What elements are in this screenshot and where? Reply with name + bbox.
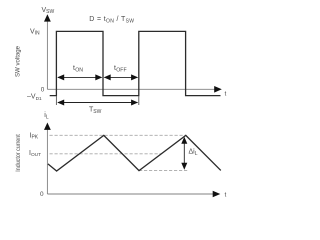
y-axis arrowhead (bottom plot) [44, 123, 51, 130]
inductor current triangle waveform [48, 135, 221, 171]
t_ON arrow [58, 76, 102, 78]
tick below rising edge 1 [55, 96, 57, 105]
valley dashed level line [139, 170, 189, 172]
I_OUT dashed level line [50, 153, 162, 155]
svg-text:TSW: TSW [89, 107, 102, 116]
svg-text:VIN: VIN [30, 28, 40, 36]
I_PK dashed level line [50, 134, 187, 136]
svg-text:IOUT: IOUT [29, 150, 41, 158]
svg-text:ΔiL: ΔiL [189, 149, 198, 158]
x-axis arrowhead (top) [214, 86, 222, 93]
t_OFF arrow [105, 76, 138, 78]
svg-text:tON: tON [73, 65, 83, 73]
y-axis arrowhead [44, 14, 51, 21]
delta i_L arrow [183, 140, 185, 166]
T_SW arrow [58, 102, 138, 104]
y-axis (V_SW axis) [46, 19, 48, 89]
svg-text:SW voltage: SW voltage [15, 45, 22, 77]
top plot: SW voltage [15, 7, 227, 115]
svg-text:–VD1: –VD1 [27, 94, 42, 102]
x-axis (t axis, bottom) [47, 193, 213, 195]
svg-text:VSW: VSW [42, 7, 55, 15]
svg-text:tOFF: tOFF [114, 65, 127, 73]
svg-text:0: 0 [40, 191, 44, 198]
tick below rising edge 2 [138, 96, 140, 105]
svg-text:iL: iL [44, 112, 49, 121]
x-axis arrowhead (bottom) [213, 191, 221, 198]
svg-text:t: t [225, 192, 227, 199]
svg-text:Inductor current: Inductor current [16, 134, 22, 172]
bottom plot: inductor current [16, 112, 227, 199]
svg-text:t: t [225, 91, 227, 98]
SW voltage square wave [50, 31, 221, 95]
svg-text:D = tON / TSW: D = tON / TSW [89, 16, 134, 25]
svg-text:IPK: IPK [30, 132, 39, 140]
y-axis (i_L axis) [46, 127, 48, 194]
svg-text:0: 0 [41, 87, 45, 94]
x-axis (t axis, top) [47, 88, 215, 90]
